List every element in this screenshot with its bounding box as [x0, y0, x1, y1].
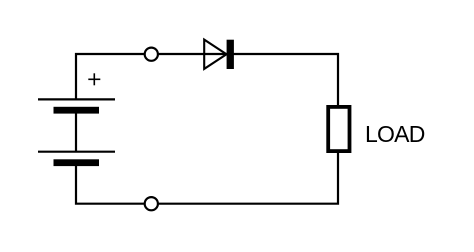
label: battery + polarity symbol	[88, 73, 100, 85]
terminal node circle (bottom)	[145, 197, 158, 210]
svg-text:LOAD: LOAD	[365, 121, 425, 147]
battery B1: cell 2 long positive plate	[38, 151, 115, 153]
diode D1: anode triangle	[204, 40, 226, 69]
wire: top loop (battery + terminal up, across top, down to load)	[76, 54, 338, 106]
battery B1: cell 2 short negative plate	[54, 159, 100, 166]
diode D1: cathode bar	[227, 40, 234, 69]
battery B1: cell 1 long positive plate	[38, 98, 115, 100]
wire: bottom loop (battery - terminal down, across bottom, up to load)	[76, 151, 338, 204]
battery B1: cell 1 short negative plate	[54, 107, 100, 114]
load resistor box	[328, 107, 349, 151]
wire: battery inter-cell link	[75, 112, 77, 152]
terminal node circle (top)	[145, 48, 158, 61]
